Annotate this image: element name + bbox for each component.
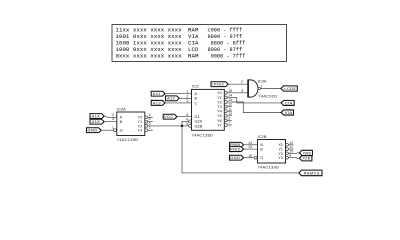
net flag RAMCS xyxy=(299,170,322,176)
wire A14 to IC2A pin A xyxy=(104,116,117,117)
svg-text:Y7: Y7 xyxy=(217,123,222,127)
net flag A14 xyxy=(90,114,104,119)
svg-text:2: 2 xyxy=(241,80,243,84)
wire IC3 Y1 to CIA xyxy=(232,97,281,103)
wire VCC to IC3 pin G1 xyxy=(177,116,187,118)
svg-text:0000 - 7fff: 0000 - 7fff xyxy=(211,53,246,59)
wire IC3 Y2 to VIA xyxy=(232,102,281,113)
svg-text:8800 - 8fff: 8800 - 8fff xyxy=(211,40,246,46)
wire GND to IC2B pin G xyxy=(244,157,255,159)
net flag A13 xyxy=(151,100,165,105)
wire IC2A Y2 to IC3 G2B xyxy=(148,125,187,127)
wire junction down to RAMCS net xyxy=(182,126,299,173)
svg-text:74AC139D: 74AC139D xyxy=(258,164,280,169)
decoder IC2A 74AC139D xyxy=(112,107,153,142)
svg-text:1: 1 xyxy=(260,84,262,88)
svg-text:A12: A12 xyxy=(167,96,175,101)
svg-text:15: 15 xyxy=(228,89,232,93)
svg-text:12: 12 xyxy=(228,103,232,107)
svg-text:G: G xyxy=(120,129,123,133)
net flag /PHI2 xyxy=(211,82,228,87)
svg-text:Y4: Y4 xyxy=(217,110,222,114)
svg-text:3: 3 xyxy=(112,117,114,121)
svg-text:RAMCS: RAMCS xyxy=(304,170,320,175)
svg-text:Y6: Y6 xyxy=(217,119,222,123)
svg-text:9: 9 xyxy=(228,117,230,121)
svg-text:GND: GND xyxy=(88,128,98,133)
svg-text:c000 - ffff: c000 - ffff xyxy=(208,27,243,33)
svg-text:IC3: IC3 xyxy=(192,83,199,88)
net flag /WE xyxy=(299,150,312,155)
wire RWB to IC2B pin A xyxy=(244,144,258,146)
svg-text:A11: A11 xyxy=(153,91,161,96)
svg-text:B: B xyxy=(260,148,263,152)
svg-text:IC3A: IC3A xyxy=(258,78,267,83)
wire GND to IC2A pin G xyxy=(101,129,113,131)
svg-text:74AC139D: 74AC139D xyxy=(117,137,139,142)
svg-text:2: 2 xyxy=(186,94,188,98)
svg-text:/PHI2: /PHI2 xyxy=(212,82,224,87)
svg-text:IC2B: IC2B xyxy=(258,134,267,139)
svg-text:Y3: Y3 xyxy=(278,156,283,160)
svg-text:B: B xyxy=(120,120,123,124)
wire gate output to LCDE xyxy=(261,88,281,90)
wire A13 to IC3 pin C xyxy=(165,102,187,104)
wire IC3 Y0 to gate pin 3 xyxy=(232,92,248,94)
svg-text:G2B: G2B xyxy=(195,124,203,128)
svg-text:8000 - 87ff: 8000 - 87ff xyxy=(208,47,243,53)
decoder IC3 74AC138D xyxy=(186,83,232,137)
svg-text:15: 15 xyxy=(248,154,252,158)
power flag VCC xyxy=(163,114,177,119)
wire /PHI2 to gate pin 2 xyxy=(228,83,248,85)
svg-text:7: 7 xyxy=(228,121,230,125)
svg-text:4: 4 xyxy=(186,117,188,121)
net flag VIA xyxy=(281,110,293,115)
wire A15 to IC2A pin B xyxy=(104,121,117,123)
svg-text:0xxx xxxx xxxx xxxx: 0xxx xxxx xxxx xxxx xyxy=(116,52,183,59)
svg-text:14: 14 xyxy=(228,94,232,98)
net flag CIA xyxy=(281,100,294,105)
net flag LCDE xyxy=(281,86,297,91)
svg-text:3: 3 xyxy=(186,99,188,103)
svg-text:3: 3 xyxy=(241,89,243,93)
svg-text:6: 6 xyxy=(186,113,188,117)
svg-text:13: 13 xyxy=(228,98,232,102)
svg-text:G1: G1 xyxy=(195,115,200,119)
wire A11 to IC3 pin A xyxy=(165,93,187,95)
svg-text:7: 7 xyxy=(149,126,151,130)
svg-text:9: 9 xyxy=(289,154,291,158)
svg-text:LCDE: LCDE xyxy=(284,86,296,91)
svg-text:A14: A14 xyxy=(92,114,101,119)
svg-text:Y3: Y3 xyxy=(138,129,143,133)
svg-text:A13: A13 xyxy=(153,100,161,105)
ground flag GND at IC2B xyxy=(230,155,244,160)
svg-text:1: 1 xyxy=(186,90,188,94)
svg-text:5: 5 xyxy=(186,122,188,126)
svg-text:Y0: Y0 xyxy=(217,91,222,95)
svg-text:13: 13 xyxy=(248,145,252,149)
net flag /OE xyxy=(299,156,312,161)
svg-text:VCC: VCC xyxy=(164,114,174,119)
wire A12 to IC3 pin B xyxy=(179,97,186,99)
wire junction up to IC3 G2A xyxy=(182,121,187,126)
svg-text:IC2A: IC2A xyxy=(117,107,126,112)
wire IC2B Y3 to /OE xyxy=(289,157,300,160)
svg-text:A15: A15 xyxy=(92,119,100,124)
svg-text:/WE: /WE xyxy=(303,150,312,155)
net flag PHI2 xyxy=(230,147,244,152)
junction dot xyxy=(181,125,184,128)
decoder IC2B 74AC139D xyxy=(248,134,293,169)
nor gate IC3A 74AC02D xyxy=(241,78,278,98)
svg-text:Y1: Y1 xyxy=(217,96,222,100)
svg-text:RAM: RAM xyxy=(188,52,199,59)
svg-text:G: G xyxy=(260,156,263,160)
svg-text:Y3: Y3 xyxy=(217,105,222,109)
svg-text:Y2: Y2 xyxy=(217,100,222,104)
wire PHI2 to IC2B pin B xyxy=(244,148,258,150)
svg-text:CIA: CIA xyxy=(285,100,293,105)
svg-text:11: 11 xyxy=(228,107,232,111)
svg-text:/OE: /OE xyxy=(303,156,311,161)
svg-text:VIA: VIA xyxy=(285,110,293,115)
net flag RWB xyxy=(230,142,244,147)
svg-text:GND: GND xyxy=(230,155,240,160)
svg-text:PHI2: PHI2 xyxy=(230,147,240,152)
net flag A11 xyxy=(151,91,165,96)
net flag A12 xyxy=(166,96,180,101)
svg-text:Y5: Y5 xyxy=(217,114,222,118)
svg-text:74AC02D: 74AC02D xyxy=(258,93,277,98)
svg-text:G2A: G2A xyxy=(195,120,203,124)
svg-text:10: 10 xyxy=(228,112,232,116)
ground flag GND at IC2A xyxy=(87,128,102,133)
svg-text:C: C xyxy=(195,101,198,105)
memory map note box xyxy=(112,25,287,62)
svg-text:9000 - 97ff: 9000 - 97ff xyxy=(208,34,243,40)
net flag A15 xyxy=(90,119,104,124)
svg-text:74AC138D: 74AC138D xyxy=(192,133,214,138)
wire IC2B Y2 to /WE xyxy=(289,152,300,155)
